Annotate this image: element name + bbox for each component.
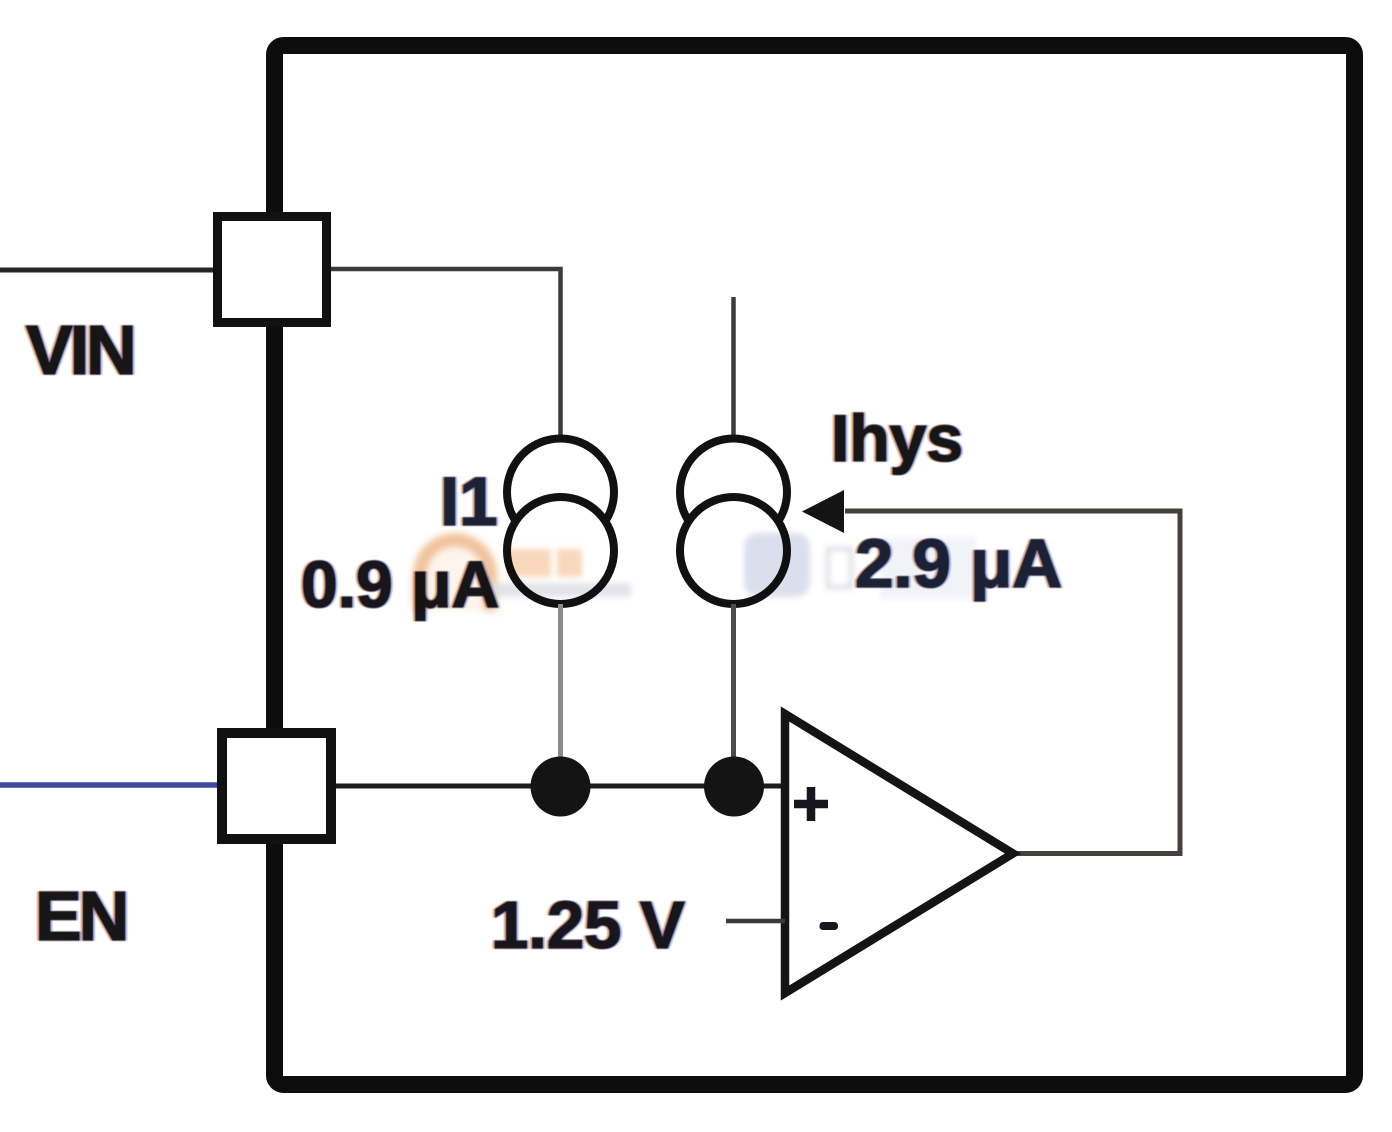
artifact: orange arch blob near 0.9 uA (multiply stain) bbox=[413, 533, 976, 611]
node A junction dot bbox=[531, 757, 591, 817]
wire: EN square to comparator bbox=[336, 784, 781, 789]
wire: Ihys top stub bbox=[731, 297, 736, 438]
artifact: pale blue box behind 2.9 bbox=[880, 537, 976, 599]
wire: 1.25V reference stub bbox=[726, 919, 785, 924]
svg-text:1.25 V: 1.25 V bbox=[491, 888, 685, 963]
artifact: small gray outlined box left of 2.9 bbox=[828, 549, 851, 587]
arrow head into Ihys bbox=[802, 490, 844, 533]
svg-text:I1: I1 bbox=[440, 463, 498, 540]
artifact: peach rectangles inside I1 lower circle bbox=[508, 549, 582, 577]
artifact: gray streak under I1 source bbox=[491, 583, 631, 597]
current source I1 bbox=[507, 439, 614, 546]
wire: EN input lead (blue) bbox=[0, 782, 222, 788]
minus input marker bbox=[820, 922, 839, 930]
wire: I1 to node A bbox=[558, 604, 563, 760]
IC boundary bbox=[275, 46, 1355, 1085]
plus input marker bbox=[794, 787, 828, 821]
op-amp comparator U1 bbox=[785, 714, 1013, 993]
svg-text:EN: EN bbox=[35, 877, 126, 955]
pin square VIN bbox=[218, 217, 327, 323]
wire: Ihys to node B bbox=[731, 604, 736, 760]
artifact: lavender rounded square behind Ihys source bbox=[744, 533, 810, 597]
wire: comparator output and feedback to arrow bbox=[845, 511, 1180, 854]
wire: VIN square to I1 current source bbox=[331, 269, 561, 438]
node B junction dot bbox=[704, 757, 764, 817]
pin square EN bbox=[222, 733, 331, 839]
svg-text:Ihys: Ihys bbox=[831, 401, 963, 475]
wire: VIN input lead bbox=[0, 268, 217, 273]
current source Ihys bbox=[680, 439, 787, 546]
svg-text:VIN: VIN bbox=[26, 311, 134, 389]
